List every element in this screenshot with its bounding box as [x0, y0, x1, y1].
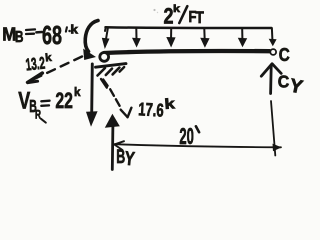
- svg-text:B: B: [15, 29, 24, 46]
- svg-text:68: 68: [42, 20, 62, 50]
- svg-text:k: k: [74, 85, 81, 99]
- svg-text:C: C: [278, 72, 290, 92]
- svg-text:13.2: 13.2: [25, 54, 46, 75]
- svg-text:k: k: [173, 3, 180, 15]
- svg-text:17.6: 17.6: [138, 98, 165, 120]
- svg-text:R: R: [35, 110, 41, 122]
- svg-text:C: C: [279, 44, 290, 65]
- svg-text:k: k: [70, 24, 78, 36]
- svg-text:2: 2: [164, 4, 174, 29]
- svg-text:T: T: [195, 9, 204, 27]
- svg-text:20: 20: [179, 123, 194, 149]
- svg-text:22: 22: [55, 88, 73, 113]
